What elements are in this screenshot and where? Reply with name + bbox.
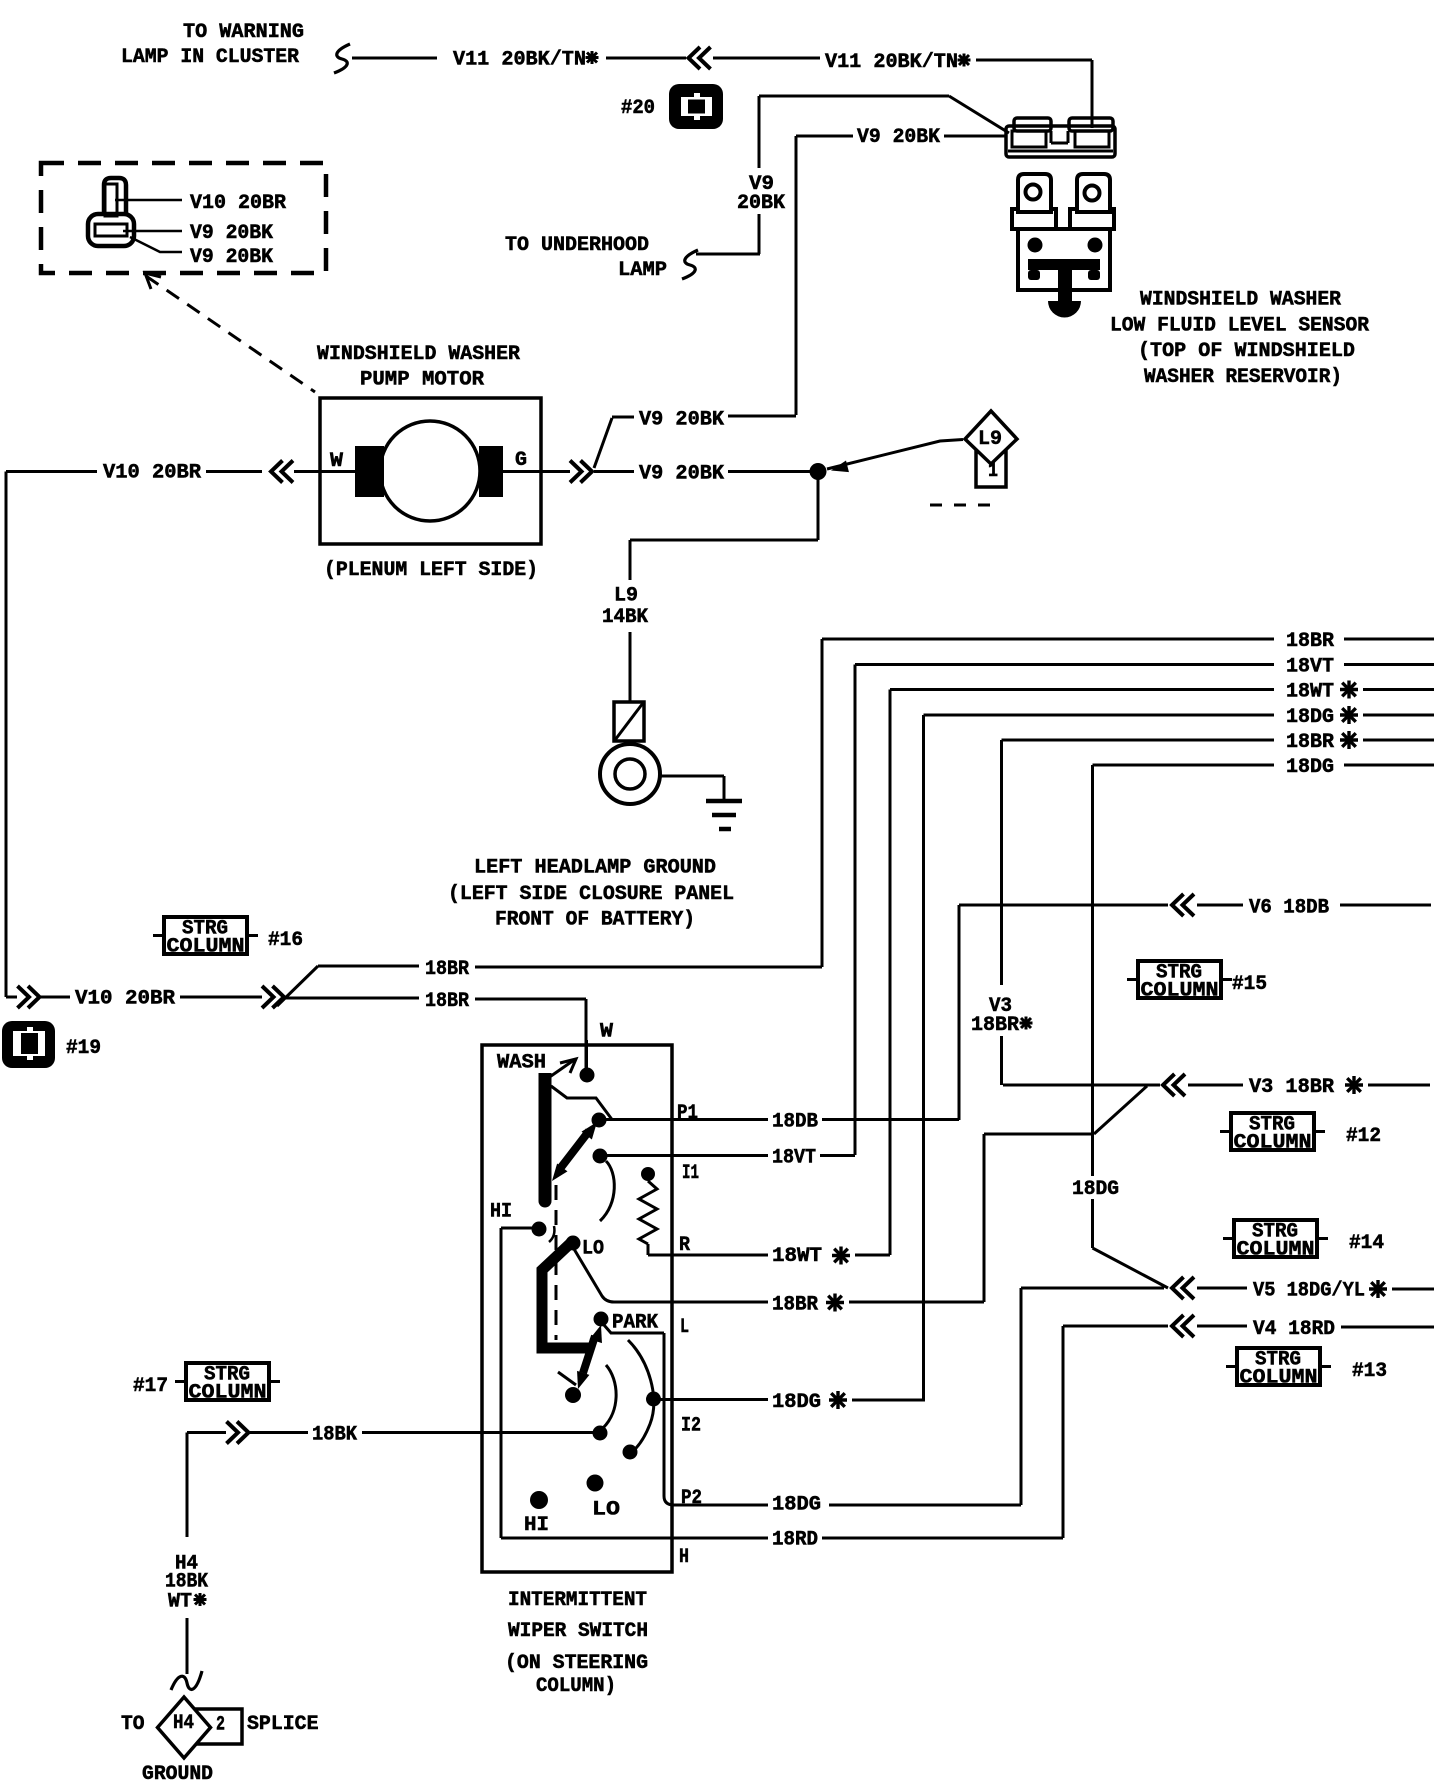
svg-text:HI: HI — [490, 1201, 512, 1224]
svg-text:LAMP IN CLUSTER: LAMP IN CLUSTER — [121, 46, 299, 69]
svg-text:LO: LO — [582, 1238, 604, 1261]
svg-text:#19: #19 — [66, 1037, 101, 1060]
svg-text:SPLICE: SPLICE — [247, 1713, 319, 1736]
svg-text:W: W — [330, 450, 343, 473]
svg-text:WIPER SWITCH: WIPER SWITCH — [508, 1620, 648, 1643]
svg-text:#14: #14 — [1349, 1232, 1384, 1255]
svg-text:1: 1 — [988, 460, 998, 483]
svg-text:TO UNDERHOOD: TO UNDERHOOD — [505, 234, 649, 257]
svg-text:G: G — [515, 449, 527, 472]
svg-text:18DG: 18DG — [1072, 1178, 1119, 1201]
svg-text:V9 20BK: V9 20BK — [639, 463, 724, 486]
svg-text:18RD: 18RD — [772, 1529, 818, 1552]
svg-text:V10 20BR: V10 20BR — [190, 192, 286, 215]
svg-text:14BK: 14BK — [602, 606, 648, 629]
svg-text:COLUMN: COLUMN — [1234, 1132, 1312, 1155]
svg-text:H4: H4 — [173, 1712, 194, 1735]
svg-text:W: W — [600, 1021, 613, 1044]
svg-text:#13: #13 — [1352, 1360, 1387, 1383]
svg-text:18BR: 18BR — [1286, 630, 1334, 653]
svg-text:#17: #17 — [133, 1375, 168, 1398]
svg-text:V10 20BR: V10 20BR — [103, 462, 201, 485]
svg-text:V9 20BK: V9 20BK — [639, 409, 724, 432]
svg-text:#15: #15 — [1232, 973, 1267, 996]
svg-text:#12: #12 — [1346, 1125, 1381, 1148]
svg-text:I2: I2 — [681, 1415, 701, 1438]
svg-text:WASHER RESERVOIR): WASHER RESERVOIR) — [1144, 366, 1342, 389]
svg-text:PARK: PARK — [612, 1312, 658, 1335]
svg-text:V4 18RD: V4 18RD — [1253, 1318, 1335, 1341]
svg-text:V5 18DG/YL: V5 18DG/YL — [1253, 1280, 1365, 1303]
svg-text:20BK: 20BK — [737, 192, 785, 215]
svg-text:COLUMN: COLUMN — [1240, 1367, 1318, 1390]
svg-text:L: L — [680, 1316, 689, 1339]
svg-text:V3 18BR: V3 18BR — [1249, 1076, 1334, 1099]
svg-text:L9: L9 — [614, 585, 638, 608]
svg-text:(LEFT SIDE CLOSURE PANEL: (LEFT SIDE CLOSURE PANEL — [448, 883, 734, 906]
svg-text:18BK: 18BK — [312, 1424, 357, 1447]
svg-text:LAMP: LAMP — [618, 259, 667, 282]
svg-text:#20: #20 — [621, 97, 655, 120]
svg-text:PUMP MOTOR: PUMP MOTOR — [360, 369, 484, 392]
svg-text:V9 20BK: V9 20BK — [190, 222, 273, 245]
svg-text:V6 18DB: V6 18DB — [1249, 897, 1329, 920]
svg-text:H: H — [679, 1546, 689, 1569]
svg-text:(TOP OF WINDSHIELD: (TOP OF WINDSHIELD — [1138, 340, 1355, 363]
svg-text:18BR: 18BR — [425, 990, 469, 1013]
svg-text:INTERMITTENT: INTERMITTENT — [508, 1589, 647, 1612]
svg-text:COLUMN: COLUMN — [1141, 980, 1219, 1003]
svg-text:18BR: 18BR — [971, 1014, 1019, 1037]
svg-text:(ON STEERING: (ON STEERING — [505, 1652, 648, 1675]
svg-text:LO: LO — [592, 1499, 620, 1522]
svg-text:V10 20BR: V10 20BR — [75, 988, 175, 1011]
svg-text:V11 20BK/TN: V11 20BK/TN — [825, 51, 958, 74]
svg-text:WINDSHIELD WASHER: WINDSHIELD WASHER — [317, 343, 520, 366]
svg-text:V9 20BK: V9 20BK — [857, 126, 940, 149]
svg-text:COLUMN: COLUMN — [189, 1382, 267, 1405]
svg-text:18DG: 18DG — [1286, 706, 1334, 729]
svg-text:GROUND: GROUND — [142, 1763, 213, 1784]
svg-text:COLUMN): COLUMN) — [536, 1675, 616, 1698]
svg-text:#16: #16 — [268, 929, 303, 952]
svg-text:18BR: 18BR — [772, 1294, 818, 1317]
svg-text:18BR: 18BR — [425, 958, 469, 981]
svg-text:I1: I1 — [682, 1162, 699, 1185]
svg-text:2: 2 — [216, 1714, 225, 1737]
svg-text:LOW FLUID LEVEL SENSOR: LOW FLUID LEVEL SENSOR — [1110, 315, 1369, 338]
svg-text:V11 20BK/TN: V11 20BK/TN — [453, 49, 586, 72]
svg-text:18DG: 18DG — [772, 1391, 821, 1414]
svg-text:WT: WT — [168, 1591, 192, 1614]
svg-text:18DB: 18DB — [772, 1111, 818, 1134]
svg-text:WASH: WASH — [497, 1052, 546, 1075]
svg-text:COLUMN: COLUMN — [167, 936, 245, 959]
svg-text:18WT: 18WT — [772, 1245, 822, 1268]
svg-text:TO WARNING: TO WARNING — [183, 21, 304, 44]
svg-text:18DG: 18DG — [1286, 756, 1334, 779]
svg-text:FRONT OF BATTERY): FRONT OF BATTERY) — [495, 909, 695, 932]
svg-text:P1: P1 — [677, 1102, 698, 1125]
svg-text:TO: TO — [121, 1713, 145, 1736]
svg-text:18DG: 18DG — [772, 1494, 821, 1517]
svg-text:COLUMN: COLUMN — [1237, 1239, 1315, 1262]
svg-text:P2: P2 — [681, 1487, 702, 1510]
svg-text:(PLENUM LEFT SIDE): (PLENUM LEFT SIDE) — [324, 559, 538, 582]
svg-text:L9: L9 — [978, 428, 1002, 451]
svg-text:18VT: 18VT — [1286, 656, 1334, 679]
svg-text:LEFT HEADLAMP GROUND: LEFT HEADLAMP GROUND — [474, 857, 716, 880]
svg-text:HI: HI — [524, 1514, 549, 1537]
svg-text:WINDSHIELD WASHER: WINDSHIELD WASHER — [1140, 289, 1341, 312]
svg-text:18WT: 18WT — [1286, 681, 1334, 704]
svg-text:V9 20BK: V9 20BK — [190, 246, 273, 269]
svg-text:18VT: 18VT — [772, 1147, 816, 1170]
svg-text:18BR: 18BR — [1286, 731, 1334, 754]
